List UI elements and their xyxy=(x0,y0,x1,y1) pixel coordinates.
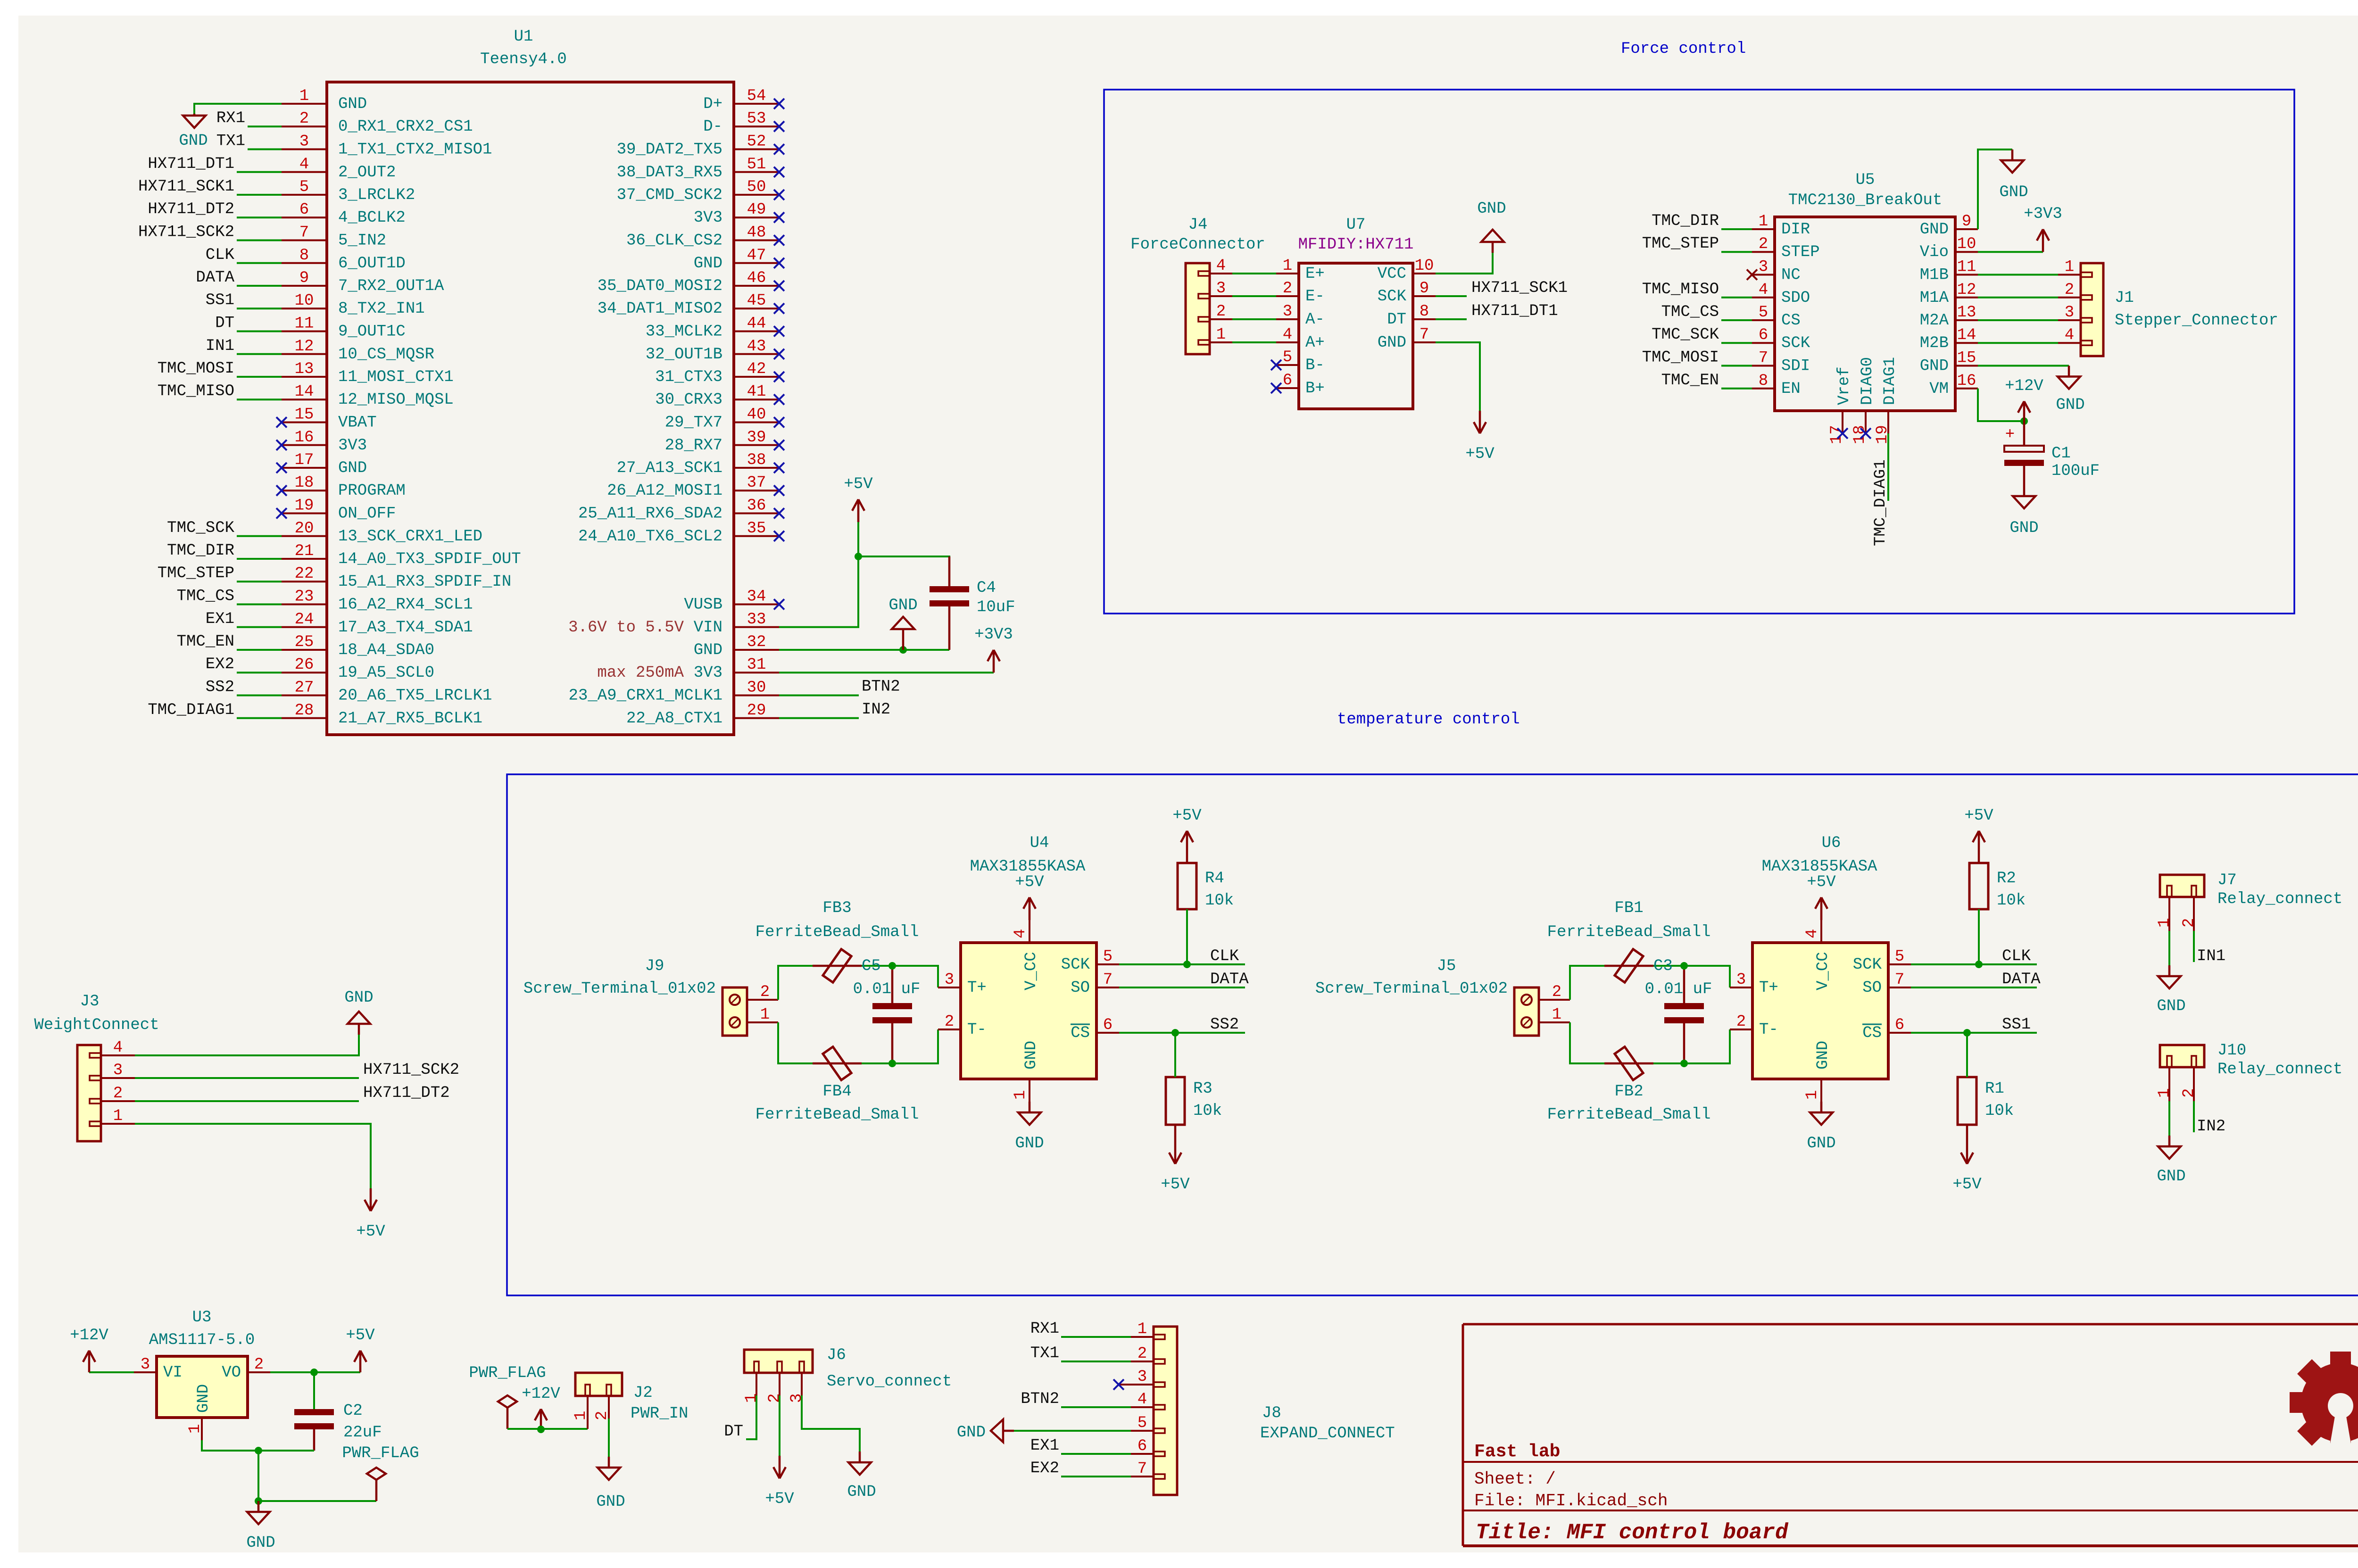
ground below J6 pin3 xyxy=(847,1452,876,1501)
svg-text:SCK: SCK xyxy=(1378,288,1407,306)
svg-text:TMC_EN: TMC_EN xyxy=(177,633,234,651)
svg-text:8: 8 xyxy=(1420,303,1429,321)
svg-text:30_CRX3: 30_CRX3 xyxy=(655,391,722,409)
svg-text:18_A4_SDA0: 18_A4_SDA0 xyxy=(338,641,434,659)
wire J9 pin1 to T- rail xyxy=(778,1022,938,1063)
svg-text:DT: DT xyxy=(215,315,234,332)
svg-text:T-: T- xyxy=(967,1021,987,1039)
svg-text:CS: CS xyxy=(1781,312,1801,330)
wire TX1 to J8 pin2 xyxy=(1061,1361,1131,1362)
svg-text:Screw_Terminal_01x02: Screw_Terminal_01x02 xyxy=(1315,980,1508,998)
ground at U5 pin9 xyxy=(1999,149,2028,201)
svg-text:Screw_Terminal_01x02: Screw_Terminal_01x02 xyxy=(523,980,716,998)
svg-text:5_IN2: 5_IN2 xyxy=(338,232,386,250)
svg-text:Servo_connect: Servo_connect xyxy=(827,1373,952,1391)
svg-text:31_CTX3: 31_CTX3 xyxy=(655,368,722,386)
ground below J7 xyxy=(2157,965,2185,1015)
svg-text:GND: GND xyxy=(1920,221,1949,239)
svg-text:VCC: VCC xyxy=(1378,265,1406,283)
resistor R2 10k xyxy=(1969,863,2026,910)
svg-text:29: 29 xyxy=(747,702,766,720)
power +5V at U4 VCC xyxy=(1015,873,1044,920)
svg-text:TMC_MISO: TMC_MISO xyxy=(158,382,234,400)
svg-text:max 250mA: max 250mA xyxy=(597,664,684,682)
junction C5 bottom xyxy=(888,1060,896,1067)
ferrite bead FB1 xyxy=(1547,899,1711,982)
svg-text:HX711_DT2: HX711_DT2 xyxy=(363,1084,450,1102)
svg-text:10: 10 xyxy=(1957,235,1976,253)
svg-text:SCK: SCK xyxy=(1061,956,1090,974)
wire U3 GND rail xyxy=(202,1440,314,1451)
svg-text:STEP: STEP xyxy=(1781,243,1820,261)
svg-text:GND: GND xyxy=(195,1384,213,1413)
connector J1 Stepper_Connector xyxy=(2058,258,2278,357)
svg-text:25: 25 xyxy=(295,633,314,651)
svg-text:4: 4 xyxy=(2065,326,2074,344)
svg-text:M1A: M1A xyxy=(1920,289,1949,307)
wire TMC_CS to U5 xyxy=(1721,319,1752,321)
wire U4 SCK xyxy=(1119,963,1245,965)
svg-text:10_CS_MQSR: 10_CS_MQSR xyxy=(338,346,434,364)
wire J6 pin3 to GND xyxy=(802,1395,860,1452)
power +5V at U1 VIN xyxy=(844,475,873,522)
svg-text:6: 6 xyxy=(299,201,309,219)
ferrite bead FB3 xyxy=(756,899,919,982)
svg-text:DT: DT xyxy=(1387,311,1406,329)
wire U5 VM to C1 xyxy=(1978,389,2024,421)
svg-text:100uF: 100uF xyxy=(2051,462,2100,480)
svg-text:16_A2_RX4_SCL1: 16_A2_RX4_SCL1 xyxy=(338,596,473,614)
power +5V above R2 xyxy=(1964,807,1993,863)
svg-text:J7: J7 xyxy=(2217,871,2237,889)
svg-text:TMC_MOSI: TMC_MOSI xyxy=(158,360,234,378)
svg-text:2: 2 xyxy=(1137,1345,1147,1363)
svg-text:18: 18 xyxy=(295,474,314,492)
ground below J10 xyxy=(2157,1136,2185,1186)
wire EX2 to J8 pin7 xyxy=(1061,1476,1131,1477)
svg-text:0_RX1_CRX2_CS1: 0_RX1_CRX2_CS1 xyxy=(338,118,473,136)
ground below C1 xyxy=(2009,485,2038,537)
svg-text:1: 1 xyxy=(1759,213,1768,231)
svg-text:T+: T+ xyxy=(1759,979,1778,997)
resistor R4 10k xyxy=(1178,863,1234,910)
svg-text:38_DAT3_RX5: 38_DAT3_RX5 xyxy=(617,164,722,182)
junction C3 bottom xyxy=(1680,1060,1688,1067)
svg-text:2: 2 xyxy=(1552,983,1561,1001)
wire U6 SCK xyxy=(1911,963,2037,965)
svg-text:5: 5 xyxy=(1137,1414,1147,1432)
wire J9 pin2 to T+ rail xyxy=(778,966,938,1000)
wire VIN pin33 to +5V xyxy=(779,522,858,627)
svg-text:13_SCK_CRX1_LED: 13_SCK_CRX1_LED xyxy=(338,528,482,546)
wire CLK to U1 pin 8 xyxy=(237,262,282,264)
svg-text:3.6V to 5.5V: 3.6V to 5.5V xyxy=(568,619,684,637)
capacitor C4 xyxy=(930,556,1015,650)
connector J5 Screw_Terminal_01x02 xyxy=(1315,957,1570,1036)
svg-text:1: 1 xyxy=(113,1107,123,1125)
wire U6 SO xyxy=(1911,987,2037,988)
svg-text:HX711_SCK1: HX711_SCK1 xyxy=(138,178,234,196)
svg-text:J6: J6 xyxy=(827,1346,846,1364)
wire U5 GND9 xyxy=(1978,149,2012,229)
svg-text:TMC_SCK: TMC_SCK xyxy=(167,519,234,537)
svg-text:+5V: +5V xyxy=(1964,807,1993,825)
svg-text:2: 2 xyxy=(299,110,309,128)
wire TMC_DIAG1 from U5 pin19 xyxy=(1887,433,1889,501)
svg-text:21: 21 xyxy=(295,542,314,560)
svg-text:34_DAT1_MISO2: 34_DAT1_MISO2 xyxy=(598,300,722,318)
junction R3/SS xyxy=(1171,1029,1179,1037)
resistor R3 10k xyxy=(1166,1077,1222,1125)
wire U5 M pin11 to J1 xyxy=(1978,274,2058,276)
svg-text:SCK: SCK xyxy=(1853,956,1882,974)
svg-text:1_TX1_CTX2_MISO1: 1_TX1_CTX2_MISO1 xyxy=(338,141,492,159)
wire U5 M pin13 to J1 xyxy=(1978,319,2058,321)
svg-text:VUSB: VUSB xyxy=(684,596,722,614)
svg-text:1: 1 xyxy=(760,1006,770,1024)
svg-text:27_A13_SCK1: 27_A13_SCK1 xyxy=(617,459,722,477)
svg-text:33_MCLK2: 33_MCLK2 xyxy=(646,323,722,341)
junction GND rail xyxy=(255,1447,262,1454)
svg-text:TMC_CS: TMC_CS xyxy=(1661,303,1719,321)
svg-text:8: 8 xyxy=(299,247,309,265)
junction VO/C2 xyxy=(310,1369,318,1376)
wire J10 pin2 xyxy=(2193,1101,2195,1132)
wire J6 pin2 to +5V xyxy=(779,1395,780,1456)
svg-text:AMS1117-5.0: AMS1117-5.0 xyxy=(149,1331,255,1349)
ground at U1 pin32 xyxy=(888,597,917,650)
svg-text:1: 1 xyxy=(572,1411,590,1420)
svg-text:12_MISO_MQSL: 12_MISO_MQSL xyxy=(338,391,454,409)
svg-text:HX711_DT2: HX711_DT2 xyxy=(148,200,234,218)
svg-text:1: 1 xyxy=(1283,257,1292,275)
svg-text:7: 7 xyxy=(299,224,309,242)
IC U7 HX711 xyxy=(1276,216,1436,409)
svg-text:32_OUT1B: 32_OUT1B xyxy=(646,346,722,364)
svg-text:22: 22 xyxy=(295,565,314,583)
wire +12V to U3 VI xyxy=(89,1371,134,1373)
svg-text:SDO: SDO xyxy=(1781,289,1810,307)
svg-text:21_A7_RX5_BCLK1: 21_A7_RX5_BCLK1 xyxy=(338,710,482,728)
svg-text:1: 1 xyxy=(186,1424,204,1434)
svg-text:13: 13 xyxy=(1957,304,1976,322)
wire DATA to U1 pin 9 xyxy=(237,285,282,287)
svg-text:R4: R4 xyxy=(1205,870,1224,888)
wire U3 VO to +5V xyxy=(270,1371,360,1373)
svg-text:4_BCLK2: 4_BCLK2 xyxy=(338,209,406,227)
svg-text:TMC_DIAG1: TMC_DIAG1 xyxy=(148,701,234,719)
IC U1 Teensy4.0 xyxy=(282,28,779,735)
wire J5 pin2 to T+ rail xyxy=(1570,966,1730,1000)
svg-text:7: 7 xyxy=(1137,1460,1147,1478)
svg-text:FerriteBead_Small: FerriteBead_Small xyxy=(1547,1106,1711,1124)
svg-text:16: 16 xyxy=(295,429,314,447)
connector J2 PWR_IN xyxy=(572,1373,688,1429)
svg-text:Relay_connect: Relay_connect xyxy=(2217,1061,2342,1079)
wire J4 pin2 to U7 xyxy=(1232,318,1276,320)
junction GND wire xyxy=(899,646,907,654)
logo gear xyxy=(2290,1352,2358,1460)
svg-text:R1: R1 xyxy=(1985,1080,2004,1098)
svg-text:GND: GND xyxy=(344,989,373,1007)
svg-text:RX1: RX1 xyxy=(216,109,245,127)
svg-text:32: 32 xyxy=(747,633,766,651)
no-connect X marks U1 left pins 15-19 xyxy=(276,417,287,519)
svg-text:VIN: VIN xyxy=(694,619,722,637)
wire R3 to SS xyxy=(1174,1033,1176,1077)
svg-text:5: 5 xyxy=(1895,948,1904,966)
svg-text:3: 3 xyxy=(1759,258,1768,276)
svg-text:+5V: +5V xyxy=(1465,445,1495,463)
svg-text:3: 3 xyxy=(788,1394,806,1403)
svg-text:CLK: CLK xyxy=(1210,947,1239,965)
svg-text:TMC_DIR: TMC_DIR xyxy=(1652,212,1719,230)
svg-text:9_OUT1C: 9_OUT1C xyxy=(338,323,406,341)
wire J5 pin1 to T- rail xyxy=(1570,1022,1730,1063)
svg-text:29_TX7: 29_TX7 xyxy=(665,414,722,432)
wire U7 DT xyxy=(1436,318,1467,320)
wire TX1 to U1 pin 3 xyxy=(248,149,282,150)
svg-text:2: 2 xyxy=(760,983,770,1001)
svg-text:File: MFI.kicad_sch: File: MFI.kicad_sch xyxy=(1474,1491,1668,1510)
svg-text:FerriteBead_Small: FerriteBead_Small xyxy=(1547,923,1711,941)
svg-text:8_TX2_IN1: 8_TX2_IN1 xyxy=(338,300,425,318)
svg-text:1: 1 xyxy=(2156,1088,2174,1098)
ferrite bead FB2 xyxy=(1547,1047,1711,1124)
svg-text:R2: R2 xyxy=(1997,870,2016,888)
wire TMC_DIAG1 to U1 pin 28 xyxy=(237,717,282,719)
svg-text:C5: C5 xyxy=(862,957,881,975)
svg-text:+3V3: +3V3 xyxy=(2024,205,2062,223)
svg-text:28: 28 xyxy=(295,702,314,720)
ground left of J8 pin5 xyxy=(957,1419,1014,1442)
svg-text:Title: MFI control board: Title: MFI control board xyxy=(1476,1520,1789,1545)
wire BTN2 to J8 pin4 xyxy=(1061,1406,1131,1408)
svg-text:12: 12 xyxy=(295,338,314,356)
svg-text:1: 1 xyxy=(1012,1090,1030,1100)
svg-text:1: 1 xyxy=(1803,1090,1821,1100)
svg-text:7: 7 xyxy=(1103,971,1113,989)
svg-text:TX1: TX1 xyxy=(1030,1344,1059,1362)
svg-text:52: 52 xyxy=(747,133,766,151)
connector J3 WeightConnect xyxy=(34,993,159,1141)
svg-text:16: 16 xyxy=(1957,372,1976,390)
svg-text:BTN2: BTN2 xyxy=(1021,1390,1059,1408)
wire TMC_EN to U1 pin 25 xyxy=(237,649,282,651)
svg-text:U1: U1 xyxy=(514,28,533,46)
svg-text:T-: T- xyxy=(1759,1021,1778,1039)
power +5V above R4 xyxy=(1172,807,1202,863)
svg-text:14: 14 xyxy=(295,383,314,401)
svg-text:4: 4 xyxy=(1012,929,1030,938)
svg-text:V_CC: V_CC xyxy=(1022,952,1040,990)
svg-text:10: 10 xyxy=(1415,257,1434,275)
wire U5 GND15 xyxy=(1978,365,2069,367)
wire U7 VCC to GND xyxy=(1436,253,1493,274)
svg-text:FB4: FB4 xyxy=(822,1083,851,1101)
svg-text:B-: B- xyxy=(1305,357,1325,374)
svg-text:U7: U7 xyxy=(1346,216,1366,234)
svg-text:EX2: EX2 xyxy=(206,655,234,673)
svg-text:GND: GND xyxy=(2056,396,2084,414)
power +3V3 at U1 pin31 xyxy=(974,626,1013,672)
wire TMC_SCK to U5 xyxy=(1721,342,1752,344)
svg-text:10k: 10k xyxy=(1205,892,1234,910)
wire HX711_SCK2 to U1 pin 7 xyxy=(237,240,282,241)
svg-text:CLK: CLK xyxy=(206,246,235,264)
svg-text:7_RX2_OUT1A: 7_RX2_OUT1A xyxy=(338,277,444,295)
svg-text:TMC_CS: TMC_CS xyxy=(177,588,234,606)
svg-text:2_OUT2: 2_OUT2 xyxy=(338,164,396,182)
wire TMC_MISO to U5 xyxy=(1721,297,1752,299)
ground at U1 pin1 xyxy=(179,114,208,150)
wire U5 M pin14 to J1 xyxy=(1978,342,2058,344)
wire R2 to CLK xyxy=(1978,909,1980,964)
svg-text:46: 46 xyxy=(747,269,766,287)
svg-text:temperature control: temperature control xyxy=(1337,711,1520,729)
svg-text:2: 2 xyxy=(1736,1013,1746,1031)
junction R1/SS xyxy=(1963,1029,1971,1037)
ground below J2 xyxy=(596,1457,625,1511)
svg-text:3: 3 xyxy=(1216,280,1226,298)
svg-text:PWR_FLAG: PWR_FLAG xyxy=(342,1444,419,1462)
ground at U5 pin15 xyxy=(2056,366,2084,415)
svg-text:3: 3 xyxy=(1283,303,1292,321)
svg-text:49: 49 xyxy=(747,201,766,219)
svg-text:D-: D- xyxy=(703,118,722,136)
svg-text:9: 9 xyxy=(299,269,309,287)
svg-text:7: 7 xyxy=(1759,349,1768,367)
wire U6 CS xyxy=(1911,1032,2037,1034)
svg-text:7: 7 xyxy=(1895,971,1904,989)
svg-text:5: 5 xyxy=(1283,348,1292,366)
no-connect X U7 pins 5-6 xyxy=(1271,360,1281,370)
wire TMC_MOSI to U5 xyxy=(1721,365,1752,367)
svg-text:1: 1 xyxy=(1216,326,1226,344)
svg-text:+12V: +12V xyxy=(522,1385,560,1403)
wire J3 pin1 to +5V xyxy=(135,1124,371,1188)
svg-text:FB2: FB2 xyxy=(1614,1083,1643,1101)
svg-text:30: 30 xyxy=(747,679,766,697)
wire J10 pin1 to GND xyxy=(2168,1101,2170,1136)
power +12V at J2 xyxy=(522,1385,560,1429)
svg-text:A-: A- xyxy=(1305,311,1325,329)
svg-text:HX711_DT1: HX711_DT1 xyxy=(1471,302,1558,320)
wire HX711_SCK1 to U1 pin 5 xyxy=(237,194,282,196)
svg-text:SS2: SS2 xyxy=(1210,1016,1239,1034)
svg-text:+12V: +12V xyxy=(2005,377,2043,395)
ground below U4 xyxy=(1015,1102,1044,1153)
svg-text:1: 1 xyxy=(743,1394,761,1403)
svg-text:IN2: IN2 xyxy=(862,701,890,719)
svg-text:0.01 uF: 0.01 uF xyxy=(1645,980,1712,998)
svg-text:1: 1 xyxy=(2156,918,2174,928)
svg-text:M1B: M1B xyxy=(1920,266,1949,284)
svg-text:J10: J10 xyxy=(2217,1042,2246,1060)
wire TMC_SCK to U1 pin 20 xyxy=(237,535,282,537)
svg-text:26: 26 xyxy=(295,656,314,674)
wire U4 SO xyxy=(1119,987,1245,988)
svg-text:GND: GND xyxy=(1378,334,1406,352)
svg-text:HX711_DT1: HX711_DT1 xyxy=(148,155,234,173)
power flag PWR_FLAG near C2 xyxy=(342,1444,419,1501)
svg-text:37_CMD_SCK2: 37_CMD_SCK2 xyxy=(617,186,722,204)
junction C3 top xyxy=(1680,962,1688,970)
svg-text:4: 4 xyxy=(1759,281,1768,299)
svg-text:GND: GND xyxy=(246,1534,275,1552)
svg-text:24: 24 xyxy=(295,611,314,629)
svg-text:GND: GND xyxy=(1999,183,2028,201)
wire +5V to C4 xyxy=(858,556,949,568)
wire SS1 to U1 pin 10 xyxy=(237,307,282,309)
svg-text:3: 3 xyxy=(113,1062,123,1079)
svg-text:Vio: Vio xyxy=(1920,243,1949,261)
wire RX1 to U1 pin 2 xyxy=(248,125,282,127)
svg-text:GND: GND xyxy=(1022,1041,1040,1070)
power +5V below R3 xyxy=(1161,1125,1190,1194)
svg-text:3V3: 3V3 xyxy=(694,664,722,682)
svg-text:5: 5 xyxy=(1103,948,1113,966)
svg-text:SO: SO xyxy=(1071,979,1090,997)
svg-text:SS1: SS1 xyxy=(206,291,234,309)
svg-text:1: 1 xyxy=(2065,258,2074,276)
power +5V below J6 xyxy=(765,1456,794,1508)
svg-text:DIAG1: DIAG1 xyxy=(1881,357,1899,405)
connector J10 Relay_connect xyxy=(2156,1042,2342,1101)
connector J9 Screw_Terminal_01x02 xyxy=(523,957,778,1036)
svg-text:3_LRCLK2: 3_LRCLK2 xyxy=(338,186,415,204)
svg-text:C4: C4 xyxy=(977,579,996,597)
wire J3 pin4 to GND xyxy=(135,1035,359,1055)
wire J4 pin1 to U7 xyxy=(1232,341,1276,343)
regulator U3 AMS1117-5.0 xyxy=(134,1309,270,1440)
wire GND pin32 to C4 xyxy=(779,649,949,651)
svg-text:38: 38 xyxy=(747,451,766,469)
power +3V3 at U5 Vio xyxy=(2024,205,2062,252)
svg-text:19: 19 xyxy=(295,497,314,515)
svg-text:53: 53 xyxy=(747,110,766,128)
svg-text:Force control: Force control xyxy=(1621,40,1746,58)
svg-text:RX1: RX1 xyxy=(1030,1320,1059,1338)
wire TMC_DIR to U5 xyxy=(1721,228,1752,230)
svg-text:VBAT: VBAT xyxy=(338,414,377,432)
svg-text:U6: U6 xyxy=(1822,834,1841,852)
wire 3V3 pin31 to +3V3 xyxy=(779,672,994,673)
svg-text:9: 9 xyxy=(1420,280,1429,298)
IC U6 MAX31855KASA xyxy=(1730,834,1911,1102)
svg-text:D+: D+ xyxy=(703,95,722,113)
svg-text:+: + xyxy=(2005,426,2015,444)
svg-text:11: 11 xyxy=(295,315,314,333)
connector J7 Relay_connect xyxy=(2156,871,2342,931)
svg-text:31: 31 xyxy=(747,656,766,674)
svg-text:TMC_MISO: TMC_MISO xyxy=(1642,281,1719,299)
junction GND rail 2 xyxy=(255,1497,262,1505)
connector J6 Servo_connect xyxy=(743,1346,952,1403)
svg-text:EXPAND_CONNECT: EXPAND_CONNECT xyxy=(1260,1425,1395,1443)
power +5V below R1 xyxy=(1952,1125,1982,1194)
svg-text:22_A8_CTX1: 22_A8_CTX1 xyxy=(626,710,722,728)
svg-text:33: 33 xyxy=(747,611,766,629)
capacitor C3 0.01uF xyxy=(1645,957,1712,1063)
svg-text:SS1: SS1 xyxy=(2002,1016,2031,1034)
svg-text:1: 1 xyxy=(299,87,309,105)
svg-text:TMC_DIR: TMC_DIR xyxy=(167,542,234,560)
svg-text:HX711_SCK2: HX711_SCK2 xyxy=(363,1061,459,1079)
svg-text:PWR_IN: PWR_IN xyxy=(631,1405,688,1423)
svg-text:6: 6 xyxy=(1137,1437,1147,1455)
svg-text:+5V: +5V xyxy=(1161,1176,1190,1194)
